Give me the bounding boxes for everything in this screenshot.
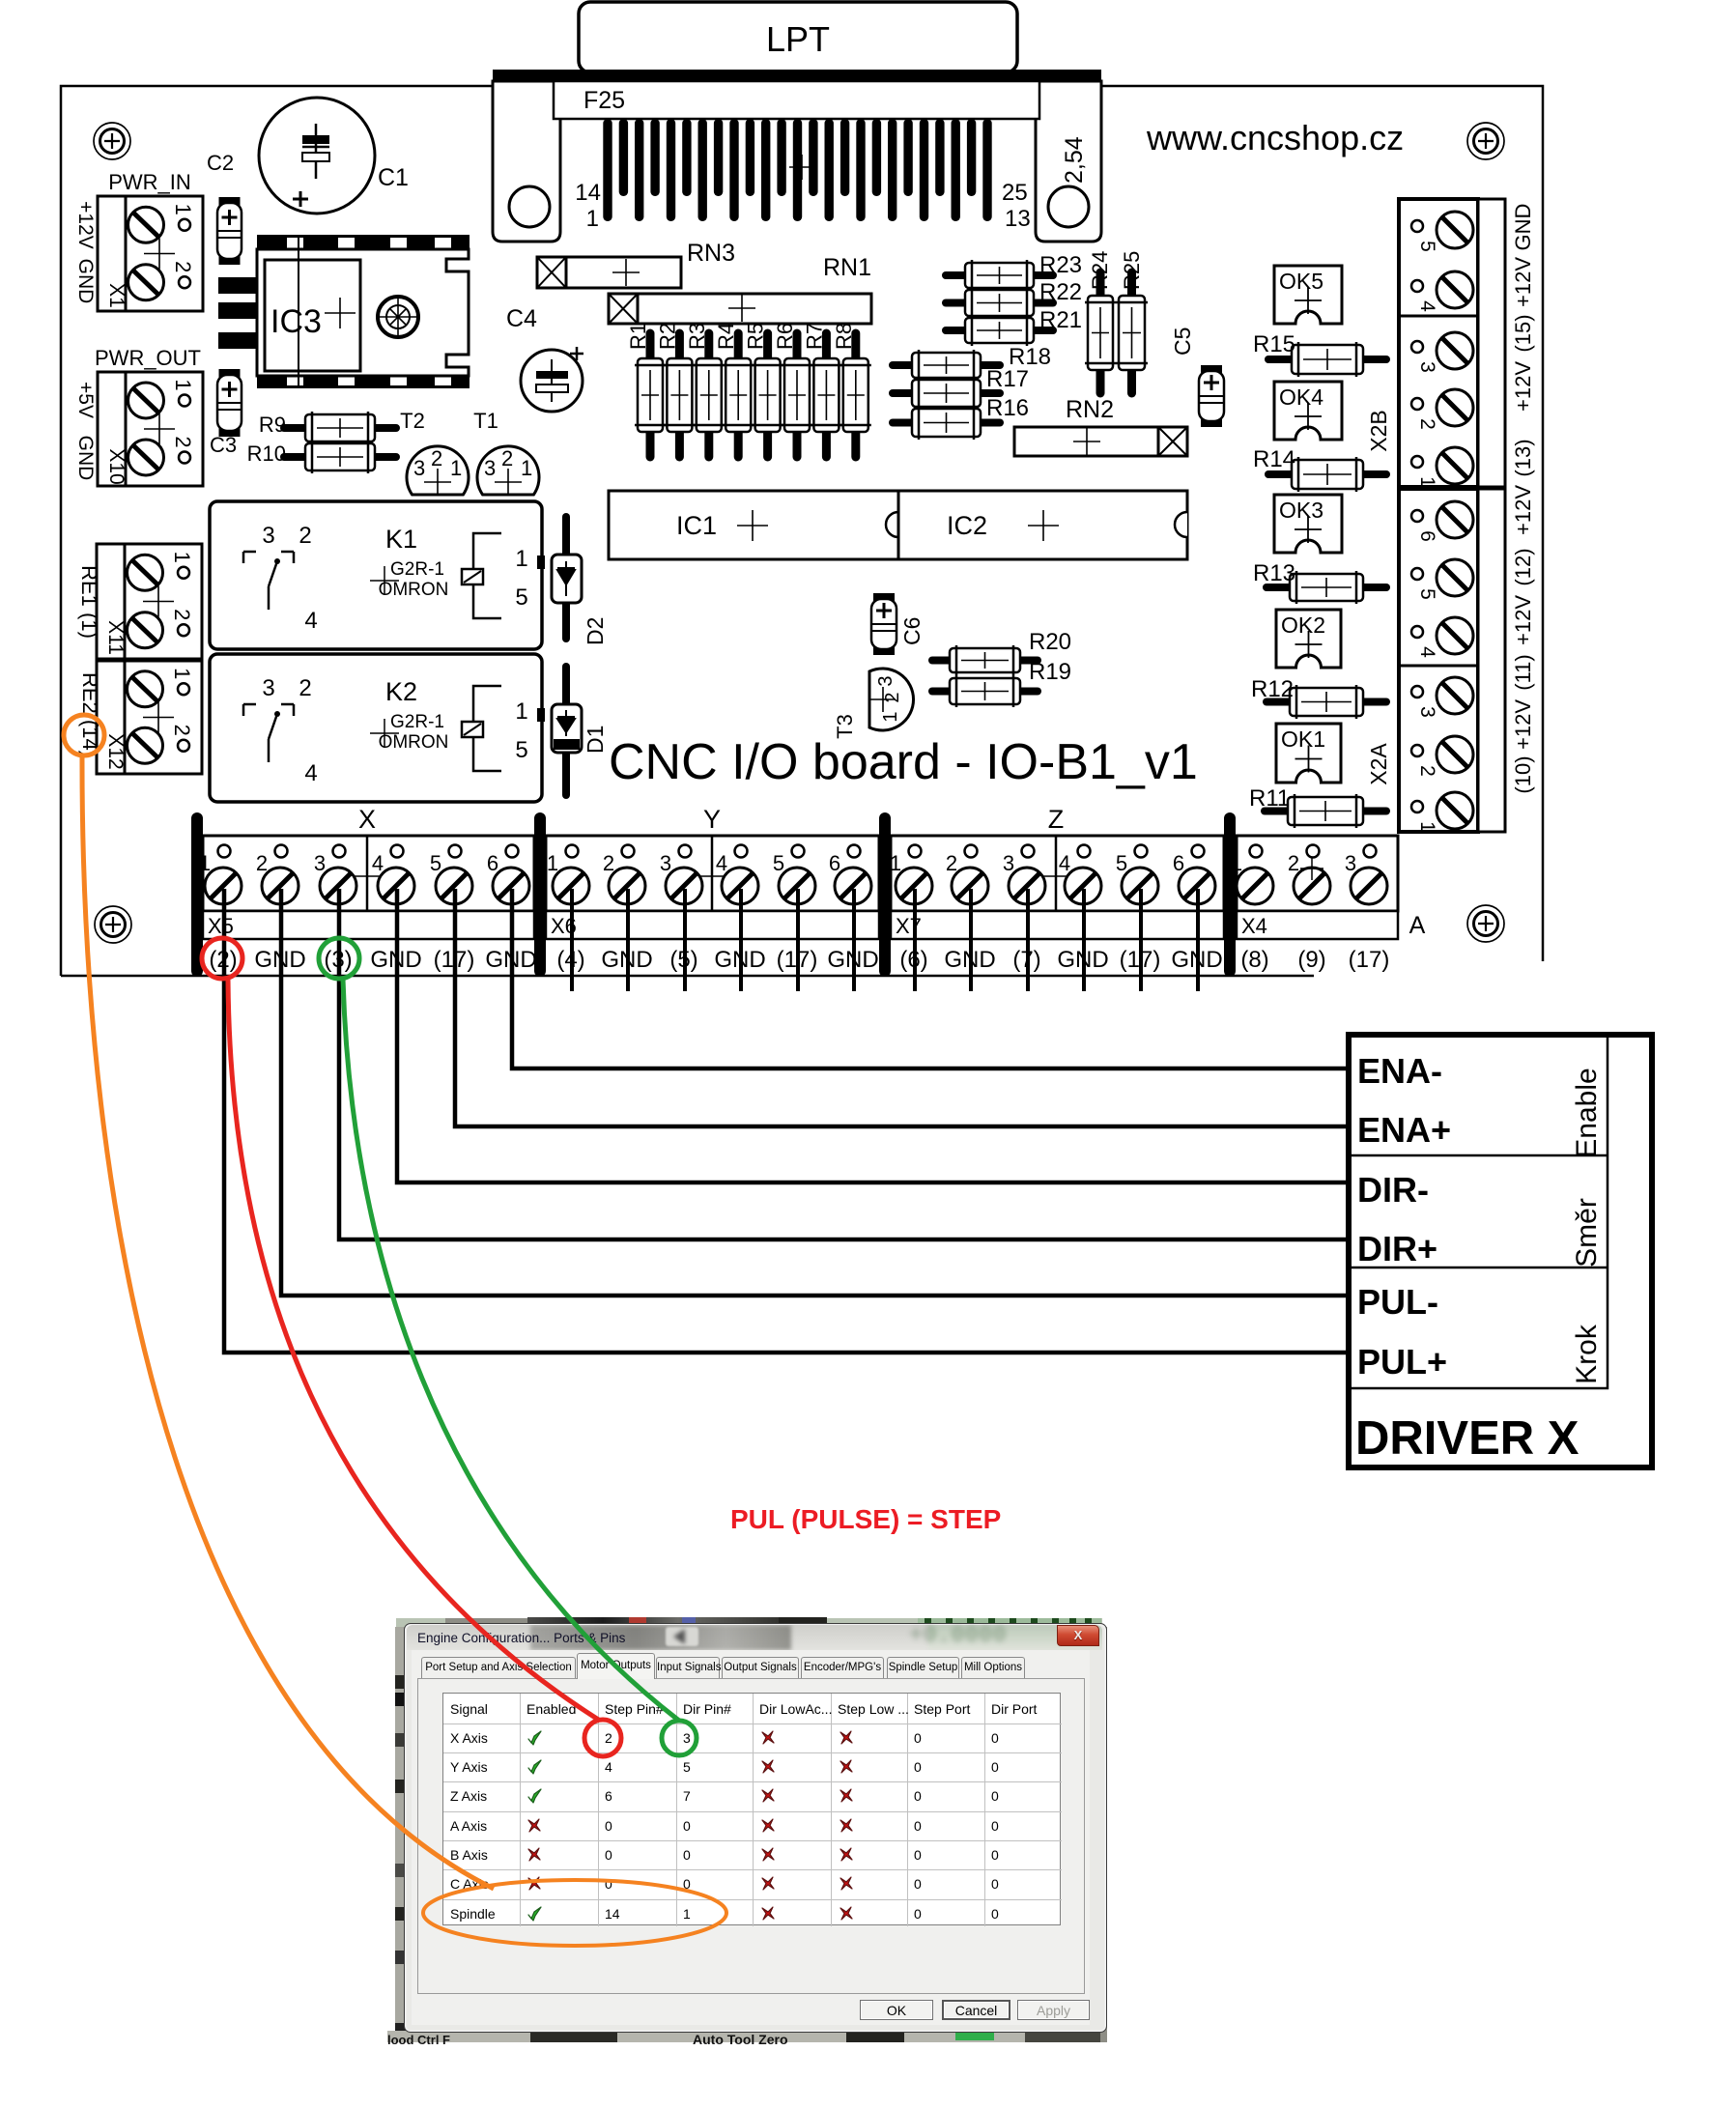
DB25 pins [603, 119, 991, 221]
terminal block X1 [98, 196, 203, 311]
resistor R9 [284, 412, 396, 444]
resistor R23 [946, 260, 1053, 291]
LPT connector face bar [493, 70, 1101, 81]
connector F25 body [554, 81, 1039, 119]
resistor R16 [893, 406, 1000, 440]
terminal strip X5 (X axis) [203, 836, 534, 939]
terminal strip X2B [1399, 199, 1505, 487]
IC2 [898, 491, 1187, 559]
transistor T1 [477, 446, 539, 496]
orange ellipse around Spindle row [423, 1880, 726, 1946]
resistor R18 [893, 350, 1000, 381]
optocoupler OK4 [1274, 382, 1342, 440]
resistor network RN1 [609, 294, 871, 324]
LPT right mounting ear [1036, 81, 1101, 242]
resistor R8 [840, 333, 871, 457]
resistor R21 [946, 315, 1053, 346]
terminal block X12 [97, 661, 202, 774]
resistor R4 [723, 333, 754, 457]
wire X5 pin 1 [224, 889, 1349, 1353]
resistor R10 [284, 441, 396, 473]
capacitor C5 [1199, 365, 1224, 427]
capacitor C1 [259, 98, 375, 214]
red circle around table value 2 [584, 1720, 621, 1756]
mounting hole top-right [1467, 123, 1504, 159]
capacitor C3 [217, 369, 242, 437]
resistor R1 [635, 333, 666, 457]
mounting hole top-left [94, 123, 130, 159]
resistor R20 [932, 645, 1038, 675]
wire X5 pin 3 [339, 889, 1349, 1239]
X6/X7 wire stubs [570, 889, 574, 991]
terminal strip X2A [1399, 489, 1505, 832]
relay K1 [210, 501, 545, 649]
optocoupler OK5 [1274, 266, 1342, 324]
capacitor C6 [871, 593, 896, 655]
resistor R12 [1266, 685, 1386, 719]
wire X5 pin 5 [455, 889, 1349, 1126]
resistor R3 [694, 333, 725, 457]
resistor R6 [782, 333, 812, 457]
DRIVER X box [1349, 1035, 1652, 1467]
strip separator bars [191, 812, 203, 977]
transistor T3 [869, 669, 914, 730]
optocoupler OK3 [1274, 495, 1342, 553]
terminal block X10 [98, 372, 203, 486]
resistor R13 [1266, 571, 1386, 604]
resistor R15 [1268, 342, 1386, 377]
red circle around (2) [202, 938, 242, 979]
orange wire to Spindle row [82, 755, 494, 1889]
transistor T2 [407, 446, 469, 496]
wire X5 pin 4 [397, 889, 1349, 1182]
LPT connector hood [579, 2, 1017, 72]
resistor R22 [946, 287, 1053, 319]
orange circle around (14) [64, 715, 104, 755]
resistor network RN2 [1014, 427, 1187, 456]
IC1 [609, 491, 898, 559]
green wire to Dir Pin 3 [343, 979, 679, 1721]
wire X5 pin 6 [512, 889, 1349, 1068]
red wire to Step Pin 2 [228, 979, 600, 1721]
resistor R25 [1116, 272, 1148, 393]
resistor R11 [1265, 794, 1386, 828]
resistor R19 [932, 675, 1038, 707]
voltage regulator IC3 [218, 235, 470, 388]
resistor network RN3 [537, 257, 681, 288]
capacitor C2 [217, 197, 242, 265]
optocoupler OK1 [1276, 724, 1341, 783]
terminal strip X7 (Z axis) [891, 836, 1224, 939]
terminal strip X4 (None axis) [1237, 836, 1398, 939]
mounting hole bottom-left [95, 906, 131, 943]
terminal block X11 [97, 544, 202, 659]
LPT left mounting ear [493, 81, 560, 242]
relay K2 [210, 654, 545, 802]
resistor R14 [1268, 457, 1386, 492]
wire X5 pin 2 [281, 889, 1349, 1296]
optocoupler OK2 [1276, 610, 1341, 668]
resistor R5 [753, 333, 783, 457]
resistor R2 [664, 333, 695, 457]
resistor R24 [1085, 272, 1116, 393]
diode D1 [552, 667, 582, 795]
resistor R7 [811, 333, 841, 457]
terminal strip X6 (Y axis) [546, 836, 879, 939]
capacitor C4 [521, 347, 583, 412]
green circle around (3) [319, 938, 359, 979]
diode D2 [552, 517, 582, 639]
board outline [61, 86, 1543, 976]
mounting hole bottom-right [1467, 905, 1504, 942]
resistor R17 [893, 377, 1000, 410]
green circle around table value 3 [662, 1721, 697, 1755]
